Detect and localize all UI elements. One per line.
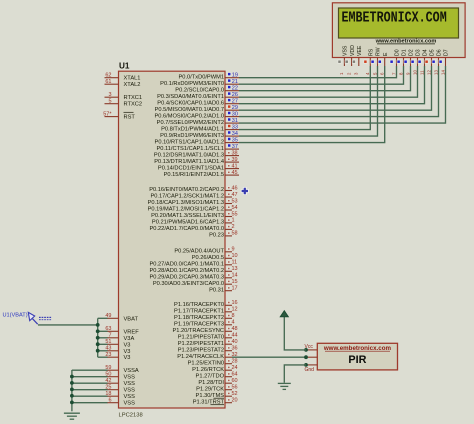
svg-text:64: 64 <box>232 372 238 378</box>
svg-text:57*: 57* <box>103 111 112 117</box>
svg-text:11: 11 <box>419 70 424 75</box>
svg-text:P0.29/AD0.2/CAP0.3/MAT0.3: P0.29/AD0.2/CAP0.3/MAT0.3 <box>149 275 224 281</box>
svg-text:P1.20/TRACESYNC: P1.20/TRACESYNC <box>172 328 224 334</box>
svg-text:48: 48 <box>232 326 238 332</box>
svg-text:P0.8/TxD1/PWM4/AD1.1: P0.8/TxD1/PWM4/AD1.1 <box>161 126 224 132</box>
svg-text:P0.30/AD0.3/EINT3/CAP0.0: P0.30/AD0.3/EINT3/CAP0.0 <box>153 281 224 287</box>
svg-text:PIR: PIR <box>348 354 366 366</box>
svg-text:Gnd: Gnd <box>305 367 315 373</box>
svg-text:54: 54 <box>232 205 238 211</box>
svg-text:LPC2138: LPC2138 <box>119 413 143 419</box>
svg-text:P0.28/AD0.1/CAP0.2/MAT0.2: P0.28/AD0.1/CAP0.2/MAT0.2 <box>149 268 224 274</box>
svg-text:P0.10/RTS1/CAP1.0/AD1.2: P0.10/RTS1/CAP1.0/AD1.2 <box>155 139 224 145</box>
svg-text:34: 34 <box>232 131 238 137</box>
svg-text:30: 30 <box>232 111 238 117</box>
svg-text:P0.2/SCL0/CAP0.0: P0.2/SCL0/CAP0.0 <box>175 87 224 93</box>
svg-text:P0.17/CAP1.2/SCK1/MAT1.2: P0.17/CAP1.2/SCK1/MAT1.2 <box>150 194 224 200</box>
svg-text:38: 38 <box>232 150 238 156</box>
svg-text:31: 31 <box>232 118 238 124</box>
svg-text:28: 28 <box>232 359 238 365</box>
svg-text:RTXC2: RTXC2 <box>124 102 143 108</box>
svg-text:P0.19/MAT1.2/MOSI1/CAP1.2: P0.19/MAT1.2/MOSI1/CAP1.2 <box>148 207 224 213</box>
svg-text:16: 16 <box>232 300 238 306</box>
svg-text:19: 19 <box>232 73 238 79</box>
svg-text:V3A: V3A <box>124 336 135 342</box>
svg-text:8: 8 <box>232 313 235 319</box>
svg-text:VEE: VEE <box>357 45 363 56</box>
svg-text:36: 36 <box>232 346 238 352</box>
svg-text:1: 1 <box>232 218 235 224</box>
svg-text:P0.9/RxD1/PWM6/EINT3: P0.9/RxD1/PWM6/EINT3 <box>160 133 224 139</box>
svg-text:U1(VBAT): U1(VBAT) <box>3 313 28 319</box>
svg-text:E: E <box>383 52 389 56</box>
svg-text:39: 39 <box>232 157 238 163</box>
svg-text:VSS: VSS <box>124 388 136 394</box>
svg-text:XTAL2: XTAL2 <box>124 82 141 88</box>
svg-text:52: 52 <box>232 391 238 397</box>
svg-text:P0.0/TxD0/PWM1: P0.0/TxD0/PWM1 <box>178 74 224 80</box>
svg-text:P1.21/PIPESTAT0: P1.21/PIPESTAT0 <box>178 335 224 341</box>
svg-text:13: 13 <box>232 266 238 272</box>
svg-text:VDD: VDD <box>350 45 356 56</box>
svg-text:P0.21/PWM5/AD1.6/CAP1.3: P0.21/PWM5/AD1.6/CAP1.3 <box>152 220 224 226</box>
svg-text:15: 15 <box>232 279 238 285</box>
svg-text:VSSA: VSSA <box>124 368 139 374</box>
svg-text:P0.26/AD0.5: P0.26/AD0.5 <box>192 255 224 261</box>
svg-text:P1.25/EXTIN0: P1.25/EXTIN0 <box>188 360 224 366</box>
svg-text:D4: D4 <box>423 49 429 56</box>
svg-text:P0.3/SDA0/MAT0.0/EINT1: P0.3/SDA0/MAT0.0/EINT1 <box>157 94 224 100</box>
svg-text:D3: D3 <box>416 49 422 56</box>
svg-text:VSS: VSS <box>343 45 349 56</box>
svg-text:40: 40 <box>232 339 238 345</box>
svg-text:P1.27/TDO: P1.27/TDO <box>196 373 225 379</box>
svg-text:41: 41 <box>232 163 238 169</box>
svg-text:P0.20/MAT1.3/SSEL1/EINT3: P0.20/MAT1.3/SSEL1/EINT3 <box>151 213 224 219</box>
svg-text:12: 12 <box>426 70 431 75</box>
svg-text:P0.11/CTS1/CAP1.1/SCL1: P0.11/CTS1/CAP1.1/SCL1 <box>156 146 224 152</box>
svg-text:V3: V3 <box>124 342 131 348</box>
svg-text:62: 62 <box>105 73 111 79</box>
svg-text:P1.17/TRACEPKT1: P1.17/TRACEPKT1 <box>174 309 224 315</box>
svg-text:P0.13/DTR1/MAT1.1/AD1.4: P0.13/DTR1/MAT1.1/AD1.4 <box>154 159 224 165</box>
svg-text:RW: RW <box>376 47 382 56</box>
svg-text:Vcc: Vcc <box>305 344 314 350</box>
svg-text:P0.22/AD1.7/CAP0.0/MAT0.0: P0.22/AD1.7/CAP0.0/MAT0.0 <box>149 226 224 232</box>
svg-text:26: 26 <box>232 92 238 98</box>
svg-text:24: 24 <box>232 365 238 371</box>
svg-text:D7: D7 <box>444 49 450 56</box>
svg-text:7: 7 <box>108 333 111 339</box>
svg-text:VSS: VSS <box>124 375 136 381</box>
svg-text:22: 22 <box>232 86 238 92</box>
svg-text:D6: D6 <box>437 49 443 56</box>
svg-text:46: 46 <box>232 185 238 191</box>
svg-text:P0.27/AD0.0/CAP0.1/MAT0.1: P0.27/AD0.0/CAP0.1/MAT0.1 <box>149 262 224 268</box>
svg-text:P1.29/TCK: P1.29/TCK <box>196 386 224 392</box>
svg-text:17: 17 <box>232 286 238 292</box>
svg-text:P1.23/PIPESTAT2: P1.23/PIPESTAT2 <box>178 347 224 353</box>
svg-text:P0.7/SSEL0/PWM2/EINT2: P0.7/SSEL0/PWM2/EINT2 <box>157 120 224 126</box>
svg-text:14: 14 <box>232 273 238 279</box>
svg-text:P1.26/RTCK: P1.26/RTCK <box>192 367 224 373</box>
svg-text:P0.12/DSR1/MAT1.0/AD1.3: P0.12/DSR1/MAT1.0/AD1.3 <box>154 152 224 158</box>
svg-text:VREF: VREF <box>124 329 140 335</box>
svg-text:12: 12 <box>232 307 238 313</box>
svg-text:XTAL1: XTAL1 <box>124 76 141 82</box>
svg-text:P0.18/CAP1.3/MISO1/MAT1.3: P0.18/CAP1.3/MISO1/MAT1.3 <box>148 200 224 206</box>
svg-text:P1.28/TDI: P1.28/TDI <box>198 380 224 386</box>
svg-text:D2: D2 <box>409 49 415 56</box>
svg-text:P0.23: P0.23 <box>209 233 224 239</box>
svg-text:V3: V3 <box>124 349 131 355</box>
svg-text:44: 44 <box>232 333 238 339</box>
svg-text:P1.24/TRACECLK: P1.24/TRACECLK <box>177 354 224 360</box>
svg-text:EMBETRONICX.COM: EMBETRONICX.COM <box>342 10 447 27</box>
svg-text:56: 56 <box>232 385 238 391</box>
svg-text:13: 13 <box>433 70 438 75</box>
svg-text:58: 58 <box>232 231 238 237</box>
svg-text:61: 61 <box>105 79 111 85</box>
svg-text:2: 2 <box>232 224 235 230</box>
svg-text:P1.18/TRACEPKT2: P1.18/TRACEPKT2 <box>174 315 224 321</box>
svg-text:RS: RS <box>369 48 375 56</box>
svg-text:P0.25/AD0.4/AOUT: P0.25/AD0.4/AOUT <box>174 249 224 255</box>
svg-text:P1.16/TRACEPKT0: P1.16/TRACEPKT0 <box>174 302 224 308</box>
svg-text:55: 55 <box>232 211 238 217</box>
svg-text:VSS: VSS <box>124 381 136 387</box>
svg-text:14: 14 <box>440 70 445 75</box>
svg-text:V3: V3 <box>124 355 131 361</box>
svg-text:6: 6 <box>108 398 111 404</box>
svg-text:P0.4/SCK0/CAP0.1/AD0.6: P0.4/SCK0/CAP0.1/AD0.6 <box>157 100 224 106</box>
svg-text:VSS: VSS <box>124 394 136 400</box>
svg-text:27: 27 <box>232 99 238 105</box>
svg-text:P0.15/RI1/EINT2/AD1.5: P0.15/RI1/EINT2/AD1.5 <box>164 172 224 178</box>
svg-text:P0.5/MISO0/MAT0.1/AD0.7: P0.5/MISO0/MAT0.1/AD0.7 <box>155 107 224 113</box>
svg-text:4: 4 <box>232 320 235 326</box>
svg-text:45: 45 <box>232 170 238 176</box>
svg-text:29: 29 <box>232 105 238 111</box>
svg-text:P0.1/RxD0/PWM3/EINT0: P0.1/RxD0/PWM3/EINT0 <box>160 81 224 87</box>
svg-text:RST: RST <box>124 115 136 121</box>
svg-text:3: 3 <box>108 92 111 98</box>
svg-text:D0: D0 <box>395 49 401 56</box>
svg-text:D1: D1 <box>402 49 408 56</box>
svg-text:60: 60 <box>232 378 238 384</box>
svg-text:53: 53 <box>232 198 238 204</box>
svg-text:D5: D5 <box>430 49 436 56</box>
svg-text:P0.6/MOSI0/CAP0.2/AD1.0: P0.6/MOSI0/CAP0.2/AD1.0 <box>154 113 224 119</box>
svg-text:RTXC1: RTXC1 <box>124 95 143 101</box>
svg-text:P0.31: P0.31 <box>209 287 224 293</box>
svg-text:U1: U1 <box>119 62 130 71</box>
svg-text:10: 10 <box>232 253 238 259</box>
svg-text:P1.19/TRACEPKT3: P1.19/TRACEPKT3 <box>174 322 224 328</box>
svg-text:21: 21 <box>232 79 238 85</box>
svg-text:33: 33 <box>232 124 238 130</box>
svg-text:VBAT: VBAT <box>124 316 139 322</box>
svg-text:35: 35 <box>232 137 238 143</box>
svg-text:P0.16/EINT0/MAT0.2/CAP0.2: P0.16/EINT0/MAT0.2/CAP0.2 <box>149 187 224 193</box>
svg-text:47: 47 <box>232 192 238 198</box>
svg-text:37: 37 <box>232 144 238 150</box>
svg-text:20: 20 <box>232 398 238 404</box>
svg-text:5: 5 <box>108 99 111 105</box>
svg-text:VSS: VSS <box>124 401 136 407</box>
svg-text:P1.22/PIPESTAT1: P1.22/PIPESTAT1 <box>178 341 224 347</box>
svg-text:9: 9 <box>232 247 235 253</box>
svg-text:10: 10 <box>412 70 417 75</box>
svg-text:P0.14/DCD1/EINT1/SDA1: P0.14/DCD1/EINT1/SDA1 <box>158 165 224 171</box>
svg-text:11: 11 <box>232 260 238 266</box>
